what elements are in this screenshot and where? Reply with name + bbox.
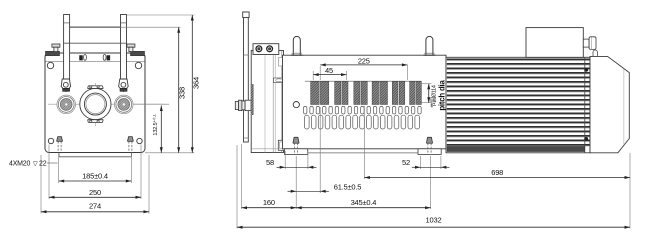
- left eyelet clamp block: [63, 88, 70, 91]
- vent slot row 2: [305, 115, 310, 129]
- corner hole top-left: [47, 62, 53, 68]
- motor top lug: [593, 50, 597, 56]
- corner hole bottom-left: [48, 138, 53, 143]
- rod step lines: [64, 22, 70, 24]
- left eyebolt rod: [64, 15, 70, 86]
- crossbeam between rods: [70, 26, 121, 28]
- foot tapped hole right: [426, 137, 432, 143]
- extension lines below left view: [40, 155, 42, 214]
- vent slot row 1: [304, 106, 307, 114]
- body inner bottom step line: [58, 152, 60, 157]
- svg-text:45: 45: [325, 66, 333, 75]
- junction box connector: [583, 39, 589, 47]
- rope hitch bracket plate: [253, 44, 279, 55]
- right eyebolt rod: [121, 15, 127, 86]
- housing section hatch strip: [251, 84, 254, 115]
- rope hitch rod: [244, 12, 249, 142]
- svg-text:364: 364: [191, 77, 200, 89]
- corner hole top-right: [135, 62, 141, 68]
- svg-text:1032: 1032: [426, 215, 442, 224]
- right eyelet clamp block: [120, 88, 127, 91]
- svg-text:274: 274: [89, 202, 101, 211]
- left U-bolt on body top: [293, 36, 300, 55]
- machine foot left: [285, 149, 308, 155]
- central bearing hub outer: [80, 89, 111, 120]
- dimension 185 +/-0.4: [59, 180, 132, 182]
- traction sheave groove band outline: [305, 80, 422, 82]
- right rope sheave: [115, 95, 134, 114]
- hub flats: [84, 85, 108, 88]
- svg-text:58: 58: [266, 158, 274, 167]
- left view: machine frame body: [45, 53, 145, 153]
- junction box: [526, 28, 583, 58]
- side clamp bolt left: [52, 44, 60, 47]
- bracket bolt 1: [256, 46, 262, 52]
- main machine body: [283, 55, 447, 149]
- side clamp bolt right: [127, 44, 135, 47]
- svg-text:4XM20: 4XM20: [9, 160, 30, 167]
- vertical dimension 364: [191, 15, 193, 153]
- svg-text:22: 22: [39, 160, 47, 167]
- vertical dimension 338: [178, 27, 180, 153]
- right eyelet of rod: [119, 79, 129, 92]
- svg-text:▽: ▽: [33, 160, 38, 167]
- motor fin end line: [584, 57, 586, 153]
- right U-bolt on body top: [426, 36, 433, 55]
- vertical dimension 132.5: [160, 106, 162, 153]
- svg-text:节圆Ø114: 节圆Ø114: [430, 85, 437, 108]
- pitch diameter dimension: [419, 83, 432, 85]
- dimension 250: [49, 196, 141, 198]
- hub inner bores: [84, 93, 106, 115]
- bracket bolt 2: [267, 46, 273, 52]
- motor end bolts: [585, 68, 588, 71]
- svg-text:250: 250: [89, 188, 101, 197]
- foot tapped hole left: [293, 137, 299, 143]
- horizontal centerline through circles: [48, 103, 165, 105]
- svg-text:61.5±0.5: 61.5±0.5: [334, 182, 362, 191]
- top clamp pad right (hatched): [131, 51, 145, 55]
- top clamp pad left (hatched): [46, 51, 60, 55]
- svg-text:225: 225: [358, 56, 370, 65]
- dimension 45: [312, 71, 314, 80]
- svg-text:52: 52: [402, 158, 410, 167]
- motor bottom dark band: [447, 146, 585, 151]
- body small circle: [293, 102, 299, 108]
- extension lines below right view: [236, 145, 238, 229]
- dimension 698: [364, 177, 630, 179]
- tapped hole M20 left (hat symbol): [57, 137, 63, 142]
- svg-text:160: 160: [263, 198, 275, 207]
- svg-text:132.5⁺⁰·¹: 132.5⁺⁰·¹: [152, 114, 159, 135]
- body inner top line: [46, 60, 145, 62]
- svg-text:185±0.4: 185±0.4: [82, 171, 108, 180]
- dimension 274: [41, 211, 149, 213]
- corner hole bottom-right: [137, 138, 142, 143]
- machine foot right: [418, 149, 441, 155]
- bottom line between feet: [308, 152, 418, 154]
- dimension 160: [242, 207, 297, 209]
- svg-text:698: 698: [491, 168, 503, 177]
- hub flange bolts: [90, 86, 92, 88]
- dimension 1032: [237, 226, 630, 228]
- housing top-right detail rect: [278, 58, 283, 67]
- tapped hole M20 right (hat symbol): [127, 137, 133, 142]
- rod top cap: [243, 12, 249, 18]
- left rope sheave: [57, 95, 76, 114]
- dimension 345 +/-0.4: [296, 207, 430, 209]
- dimension 225: [319, 66, 321, 80]
- motor body with cooling fins: [446, 57, 590, 153]
- slot and bolt marks near top center: [80, 56, 83, 61]
- motor end cap: [590, 56, 629, 152]
- brake housing block: [251, 51, 283, 153]
- housing clamp with ellipse: [274, 78, 285, 83]
- svg-text:338: 338: [178, 87, 187, 99]
- housing bottom bolt block: [278, 140, 285, 150]
- svg-text:pitch dia: pitch dia: [437, 80, 446, 111]
- traction sheave grooves (hatched): [311, 82, 320, 105]
- left eyelet of rod: [61, 79, 70, 92]
- vertical centerline of hub: [94, 83, 96, 126]
- right-side extension lines of left view: [127, 14, 195, 16]
- shaft end nut stack: [235, 102, 238, 110]
- svg-text:345±0.4: 345±0.4: [351, 198, 377, 207]
